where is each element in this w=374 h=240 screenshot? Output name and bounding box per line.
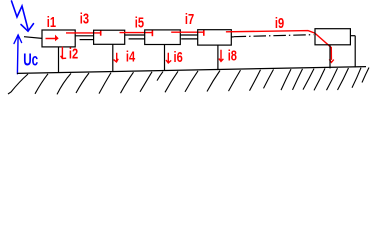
current arrow i3: [66, 32, 101, 34]
resistor R2: [94, 30, 125, 44]
current arrow i8: [219, 50, 224, 62]
svg-text:i9: i9: [275, 14, 284, 31]
wire R3-R4 lower rail: [181, 38, 198, 40]
current arrow i9: [226, 31, 334, 63]
resistor R1: [42, 30, 75, 47]
dash-dot continuation line: [234, 35, 314, 37]
wire left input: [24, 37, 42, 39]
stub after R5: [350, 35, 355, 37]
stub after R4: [231, 36, 233, 38]
svg-text:i5: i5: [135, 14, 144, 31]
resistor R5: [315, 29, 350, 45]
current arrow i4: [114, 53, 119, 62]
shunt wire below R4: [217, 45, 219, 70]
resistor R4: [198, 30, 232, 45]
wire R2-R3 upper: [125, 34, 145, 36]
svg-text:i6: i6: [174, 49, 183, 66]
voltage arrow Uc: [14, 35, 22, 74]
resistor R3: [145, 30, 181, 45]
ground line: [17, 67, 366, 74]
wire R1-R2 upper: [75, 35, 94, 37]
shunt wire below R2: [112, 44, 114, 71]
wire R3-R4 upper: [180, 34, 198, 36]
svg-text:i4: i4: [126, 48, 136, 65]
shunt wire below R3: [164, 45, 166, 71]
svg-text:i8: i8: [228, 47, 237, 64]
svg-text:i1: i1: [47, 14, 56, 31]
svg-text:i2: i2: [69, 45, 78, 62]
svg-text:Uc: Uc: [23, 50, 38, 70]
shunt wire below R5: [329, 45, 331, 69]
svg-text:i7: i7: [185, 10, 194, 27]
ground hatching: [8, 68, 369, 95]
current arrow i2: [61, 47, 67, 59]
svg-text:i3: i3: [80, 10, 89, 27]
current arrow i5: [120, 32, 153, 34]
shunt wire below R1: [58, 47, 60, 72]
lightning surge arrow: [12, 1, 34, 31]
current arrow i7: [171, 31, 204, 33]
terminating drop wire: [354, 36, 356, 68]
wire R1-R2 lower rail: [80, 39, 94, 41]
wire R2-R3 lower rail: [129, 38, 145, 40]
current arrow i1: [46, 38, 56, 40]
current arrow i6: [166, 53, 171, 63]
